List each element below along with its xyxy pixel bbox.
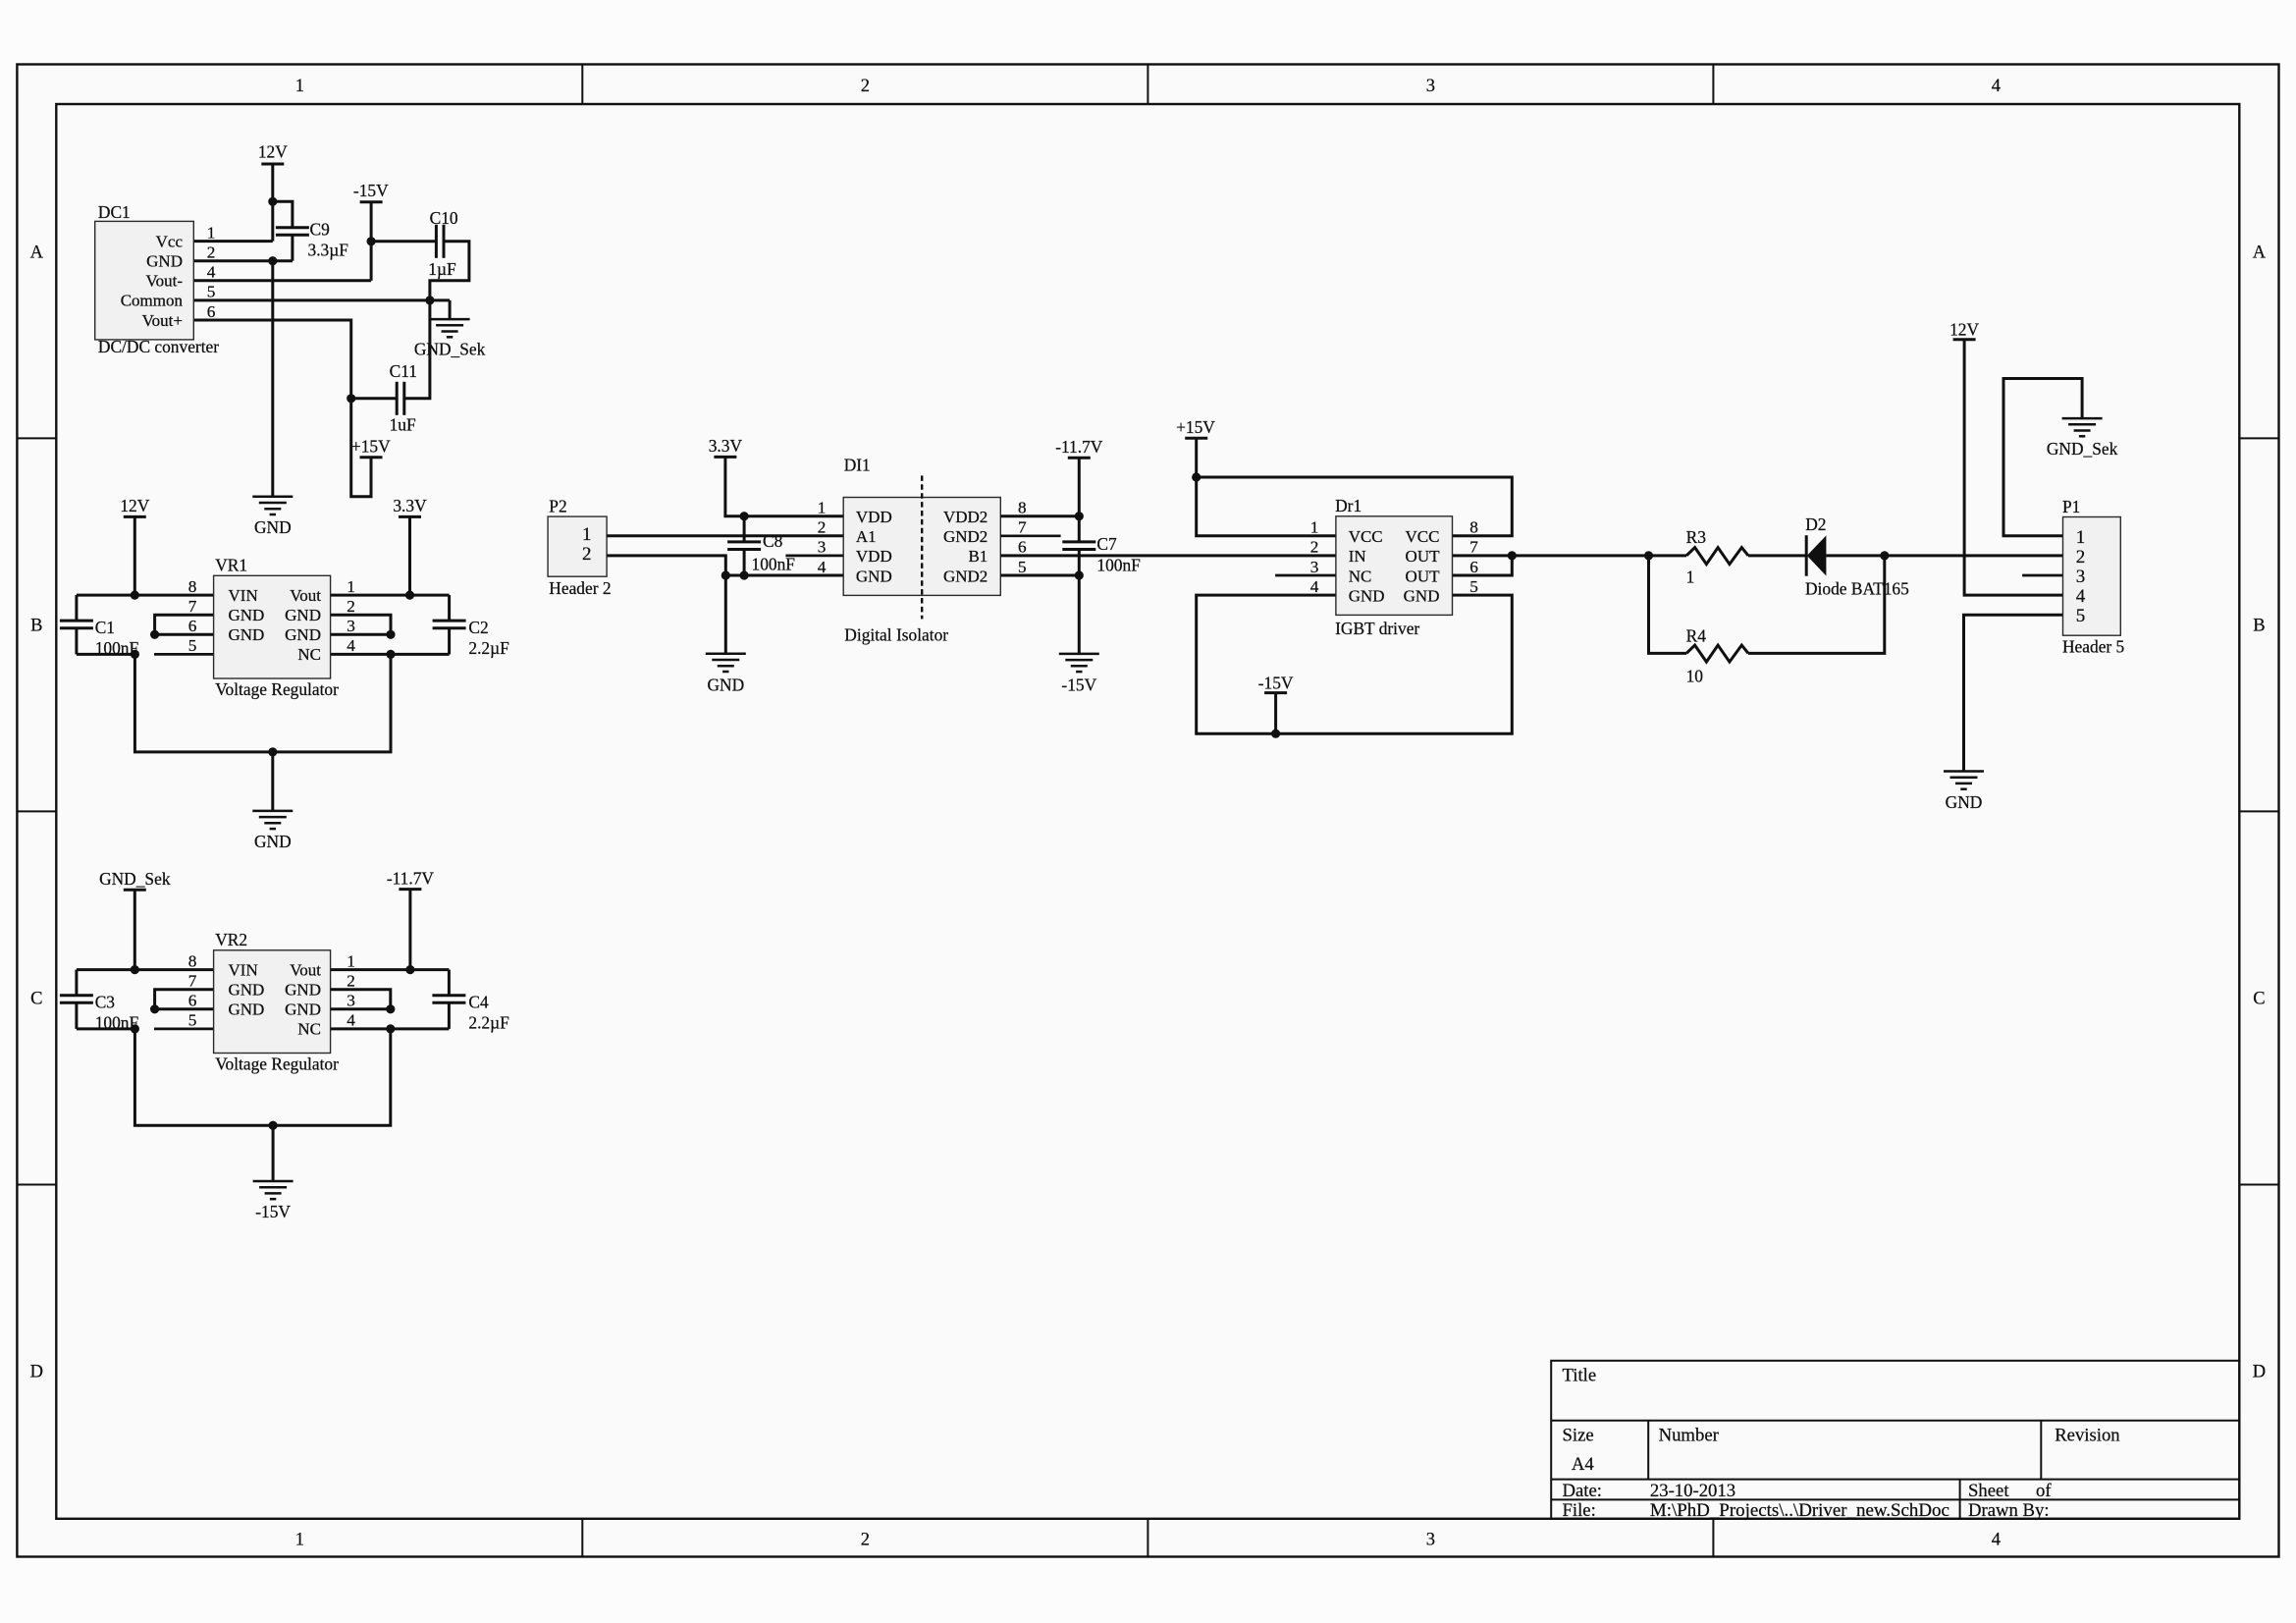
svg-text:Vout: Vout xyxy=(290,586,321,605)
component DI1 Digital Isolator xyxy=(818,456,1027,645)
svg-text:12V: 12V xyxy=(258,142,288,162)
svg-text:GND: GND xyxy=(285,981,321,1000)
wire C11 left lead xyxy=(351,397,398,400)
svg-text:4: 4 xyxy=(818,558,827,576)
power -11.7V (VR2 output) xyxy=(387,868,435,969)
wire DI1 pin3 stub xyxy=(785,555,843,558)
junction dot +15V node xyxy=(1192,472,1201,481)
svg-text:Drawn By:: Drawn By: xyxy=(1968,1500,2050,1521)
wire P1 pin3 stub xyxy=(2022,574,2062,577)
svg-text:B: B xyxy=(30,617,42,636)
svg-text:M:\PhD_Projects\..\Driver_new.: M:\PhD_Projects\..\Driver_new.SchDoc xyxy=(1650,1500,1949,1521)
svg-text:12V: 12V xyxy=(1949,320,1979,340)
wire VR1 pin2-pin3 jog xyxy=(331,615,391,634)
svg-text:1: 1 xyxy=(1310,518,1319,537)
wire +15V to Dr1 pin1 VCC xyxy=(1197,477,1336,536)
capacitor C9 3.3uF xyxy=(273,201,348,260)
svg-text:IGBT driver: IGBT driver xyxy=(1335,619,1419,638)
wire VR1 pin8 VIN rail xyxy=(77,594,214,597)
svg-text:D: D xyxy=(2253,1363,2266,1382)
svg-text:3: 3 xyxy=(1310,558,1319,576)
junction dot -15V/C10 xyxy=(367,237,376,245)
svg-text:1: 1 xyxy=(295,1531,304,1550)
svg-text:Voltage Regulator: Voltage Regulator xyxy=(215,1054,339,1073)
wire DC1 pin2 GND net xyxy=(193,259,293,262)
svg-text:A4: A4 xyxy=(1572,1454,1594,1475)
junction dot D2/R4 node xyxy=(1880,551,1889,560)
svg-text:Vcc: Vcc xyxy=(156,232,184,250)
capacitor C4 2.2uF xyxy=(432,970,509,1033)
power GND_Sek (VR2 input) xyxy=(99,869,171,970)
svg-text:-15V: -15V xyxy=(353,181,389,200)
wire DC1 pin6 Vout+ to +15V xyxy=(193,320,371,497)
svg-text:GND: GND xyxy=(285,1001,321,1019)
power +15V xyxy=(351,437,391,458)
resistor R3 1 xyxy=(1686,527,1748,587)
ground GND (below P1) xyxy=(1944,772,1984,813)
svg-text:4: 4 xyxy=(2076,586,2086,607)
svg-text:1: 1 xyxy=(295,77,304,96)
wire VR1 pin1 Vout xyxy=(331,594,450,597)
component VR2 Voltage Regulator xyxy=(188,930,356,1073)
svg-text:C7: C7 xyxy=(1096,534,1117,554)
wire VR2 ground U xyxy=(134,1029,390,1125)
wire DC1 pin1 Vcc to 12V xyxy=(193,240,272,243)
wire P2 pin1 to DI1 pin2 xyxy=(607,534,843,537)
svg-text:4: 4 xyxy=(347,636,355,655)
wire DI1 pin6 B1 to Dr1 IN xyxy=(1000,554,1336,557)
svg-text:3.3V: 3.3V xyxy=(709,436,743,456)
svg-text:3: 3 xyxy=(347,617,355,635)
capacitor C7 100nF xyxy=(1062,516,1141,575)
wire D2 to P1 pin2 xyxy=(1826,554,2062,557)
svg-text:5: 5 xyxy=(1018,558,1027,576)
svg-text:P1: P1 xyxy=(2062,497,2080,516)
svg-text:7: 7 xyxy=(188,597,197,616)
svg-text:2: 2 xyxy=(2076,547,2086,568)
svg-text:2: 2 xyxy=(818,518,827,537)
wire VR2 pin1 Vout xyxy=(331,968,450,971)
junction dot GND2 rail xyxy=(1075,570,1084,579)
svg-text:Header 2: Header 2 xyxy=(549,578,611,598)
component P1 Header 5 xyxy=(2062,497,2125,657)
svg-text:B: B xyxy=(2253,617,2265,636)
junction dot GND U center xyxy=(268,747,277,756)
wire VR1 ground U xyxy=(134,654,391,752)
svg-text:A: A xyxy=(2253,243,2267,263)
junction dot C1/GND-U xyxy=(131,650,139,659)
svg-text:GND: GND xyxy=(229,1001,265,1019)
power 3.3V (VR1 output) xyxy=(393,496,427,595)
svg-text:5: 5 xyxy=(1469,577,1478,596)
junction dot 3.3V/Vout xyxy=(405,591,414,600)
svg-text:3: 3 xyxy=(818,538,827,557)
svg-text:3: 3 xyxy=(1426,77,1435,96)
component DC1 DC/DC converter xyxy=(95,202,220,356)
svg-text:Header 5: Header 5 xyxy=(2062,637,2125,657)
svg-text:GND: GND xyxy=(707,675,744,694)
junction dot C8 bottom xyxy=(740,570,749,579)
svg-text:7: 7 xyxy=(188,972,197,991)
svg-text:Diode BAT165: Diode BAT165 xyxy=(1805,579,1909,599)
svg-text:D2: D2 xyxy=(1805,514,1826,534)
junction dot GND stem xyxy=(721,570,730,579)
svg-text:GND: GND xyxy=(1404,586,1440,605)
svg-text:VIN: VIN xyxy=(229,960,258,979)
power +12V rail (top) xyxy=(258,142,288,242)
svg-text:B1: B1 xyxy=(968,547,988,566)
svg-text:2.2µF: 2.2µF xyxy=(468,1012,509,1032)
svg-text:VDD: VDD xyxy=(856,508,892,526)
wire -15V stem VR2 xyxy=(272,1125,275,1181)
wire Dr1 pin6 OUT jog xyxy=(1453,556,1513,575)
svg-text:C3: C3 xyxy=(95,992,116,1011)
svg-text:Vout-: Vout- xyxy=(146,272,184,291)
wire VR1 pin7-pin6 jog xyxy=(155,615,214,634)
junction dot GND drop xyxy=(268,256,277,265)
wire P2 pin2 to GND xyxy=(607,556,725,575)
wire C10 left lead xyxy=(371,240,436,243)
svg-text:VR1: VR1 xyxy=(215,556,247,575)
svg-text:100nF: 100nF xyxy=(752,554,796,573)
resistor R4 10 xyxy=(1686,626,1748,686)
junction dot pin6 tip xyxy=(150,630,159,639)
svg-text:DC1: DC1 xyxy=(98,202,131,222)
junction dot 12V/C9 xyxy=(268,197,277,206)
svg-text:10: 10 xyxy=(1686,667,1704,686)
svg-text:GND_Sek: GND_Sek xyxy=(414,340,486,359)
svg-text:Date:: Date: xyxy=(1563,1481,1602,1501)
svg-text:GND: GND xyxy=(285,625,321,644)
junction dot OUT pins join xyxy=(1508,551,1517,560)
svg-text:1: 1 xyxy=(2076,527,2086,548)
junction dot 3.3V/C8 xyxy=(740,512,749,520)
svg-text:P2: P2 xyxy=(549,497,566,516)
svg-text:Dr1: Dr1 xyxy=(1335,496,1362,515)
svg-text:8: 8 xyxy=(1469,518,1478,537)
svg-text:NC: NC xyxy=(297,1020,321,1039)
svg-text:VDD2: VDD2 xyxy=(943,508,988,526)
svg-text:C8: C8 xyxy=(763,531,783,551)
junction dot VR2 pin3 tip xyxy=(386,1004,395,1013)
ground GND_Sek (near DC1) xyxy=(414,319,486,358)
svg-text:GND: GND xyxy=(1349,586,1385,605)
svg-text:6: 6 xyxy=(188,992,197,1010)
svg-text:1uF: 1uF xyxy=(390,415,416,435)
wire GND drop from DC1 pin2 xyxy=(271,261,274,497)
svg-text:IN: IN xyxy=(1349,547,1366,566)
svg-text:GND: GND xyxy=(254,517,292,537)
svg-text:Title: Title xyxy=(1563,1366,1597,1386)
junction dot pin3 tip xyxy=(386,630,395,639)
svg-text:Digital Isolator: Digital Isolator xyxy=(844,624,948,644)
svg-text:8: 8 xyxy=(188,577,197,596)
svg-text:C4: C4 xyxy=(468,992,489,1011)
svg-text:1: 1 xyxy=(347,951,355,970)
svg-text:NC: NC xyxy=(297,645,321,664)
svg-text:2.2µF: 2.2µF xyxy=(468,638,509,658)
capacitor C8 100nF xyxy=(727,516,795,575)
wire R3 to D2 xyxy=(1748,554,1806,557)
ground -15V (below C7) xyxy=(1059,654,1099,695)
wire +15V top loop to Dr1 pin8 xyxy=(1197,477,1513,536)
title block xyxy=(1551,1361,2239,1519)
svg-text:3: 3 xyxy=(347,992,355,1010)
svg-text:2: 2 xyxy=(347,972,355,991)
junction dot GND_Sek/VIN xyxy=(131,965,139,974)
power 3.3V (DI1) xyxy=(709,436,843,516)
wire Dr1 pin7 OUT xyxy=(1453,554,1687,557)
svg-text:File:: File: xyxy=(1563,1500,1596,1521)
svg-text:of: of xyxy=(2036,1481,2052,1501)
capacitor C11 1uF xyxy=(390,361,417,435)
junction dot R3/R4 left node xyxy=(1644,551,1653,560)
svg-text:D: D xyxy=(30,1363,43,1382)
junction dot VR2 pin6 tip xyxy=(150,1004,159,1013)
capacitor C10 1uF xyxy=(428,208,458,279)
junction dot pin4 node xyxy=(386,650,395,659)
svg-text:VCC: VCC xyxy=(1406,527,1440,546)
svg-text:GND: GND xyxy=(229,981,265,1000)
svg-text:-11.7V: -11.7V xyxy=(1055,437,1103,457)
power -15V (Dr1) xyxy=(1258,674,1294,734)
svg-text:NC: NC xyxy=(1349,567,1372,585)
svg-text:2: 2 xyxy=(347,597,355,616)
capacitor C3 100nF xyxy=(60,970,139,1033)
wire Dr1 pin3 NC stub xyxy=(1275,574,1336,577)
svg-text:VDD: VDD xyxy=(856,547,892,566)
svg-text:GND: GND xyxy=(229,625,265,644)
svg-text:Revision: Revision xyxy=(2055,1426,2120,1446)
svg-text:1: 1 xyxy=(818,499,827,517)
wire R4 branch right xyxy=(1748,556,1885,654)
svg-text:100nF: 100nF xyxy=(1096,556,1141,575)
svg-text:Number: Number xyxy=(1659,1426,1720,1446)
svg-text:6: 6 xyxy=(1018,538,1027,557)
svg-text:-11.7V: -11.7V xyxy=(387,868,435,888)
diode D2 BAT165 xyxy=(1805,514,1909,599)
power -11.7V (DI1) xyxy=(1055,437,1103,516)
svg-text:4: 4 xyxy=(1310,577,1319,596)
junction dot C3 node xyxy=(131,1024,139,1033)
svg-text:7: 7 xyxy=(1469,538,1478,557)
svg-text:-15V: -15V xyxy=(1258,674,1294,693)
svg-text:GND: GND xyxy=(254,832,292,851)
wire GND stem VR1 xyxy=(271,752,274,811)
svg-text:2: 2 xyxy=(1310,538,1319,557)
component P2 Header 2 xyxy=(548,497,611,598)
svg-text:C: C xyxy=(30,990,42,1009)
svg-text:GND2: GND2 xyxy=(943,527,988,546)
svg-text:GND: GND xyxy=(856,567,892,585)
svg-text:7: 7 xyxy=(1018,518,1027,537)
wire C1 bottom to GND U xyxy=(77,653,134,656)
ground -15V (below VR2) xyxy=(253,1181,294,1221)
svg-text:-15V: -15V xyxy=(1061,675,1096,694)
svg-text:3.3µF: 3.3µF xyxy=(308,241,349,260)
wire VR2 pin5 stub xyxy=(154,1028,214,1031)
svg-text:OUT: OUT xyxy=(1406,547,1441,566)
svg-text:A1: A1 xyxy=(856,527,877,546)
svg-text:C1: C1 xyxy=(95,618,115,637)
svg-text:R4: R4 xyxy=(1686,626,1707,646)
svg-text:6: 6 xyxy=(188,617,197,635)
svg-text:8: 8 xyxy=(188,951,197,970)
svg-text:2: 2 xyxy=(861,1531,870,1550)
wire DI1 pin8 VDD2 xyxy=(1000,514,1079,517)
component Dr1 IGBT driver xyxy=(1310,496,1479,638)
junction dot -11.7V/Vout xyxy=(405,965,414,974)
svg-text:5: 5 xyxy=(188,636,197,655)
svg-text:3.3V: 3.3V xyxy=(393,496,427,515)
svg-text:VCC: VCC xyxy=(1349,527,1383,546)
junction dot VR2 U center xyxy=(269,1121,278,1130)
svg-text:GND2: GND2 xyxy=(943,567,988,585)
wire VR2 pin2-pin3 jog xyxy=(331,990,391,1009)
svg-text:1µF: 1µF xyxy=(428,259,456,279)
svg-text:R3: R3 xyxy=(1686,527,1707,547)
svg-text:GND: GND xyxy=(285,606,321,624)
svg-text:5: 5 xyxy=(207,283,216,301)
svg-text:23-10-2013: 23-10-2013 xyxy=(1650,1481,1735,1501)
wire R4 branch left xyxy=(1649,556,1687,654)
svg-text:VR2: VR2 xyxy=(215,930,247,949)
ground GND (below DC1) xyxy=(252,497,293,537)
svg-text:GND: GND xyxy=(1946,792,1983,812)
wire GND_Sek loop to P1 pin1 xyxy=(2003,379,2082,536)
power 12V (P1) xyxy=(1949,320,2062,596)
svg-text:1: 1 xyxy=(582,524,592,545)
wire P1 pin5 to GND xyxy=(1964,615,2063,771)
svg-text:5: 5 xyxy=(188,1011,197,1030)
svg-text:DI1: DI1 xyxy=(844,456,871,475)
svg-text:2: 2 xyxy=(861,77,870,96)
svg-text:4: 4 xyxy=(347,1011,355,1030)
svg-text:+15V: +15V xyxy=(351,437,391,457)
junction dot C11 tap xyxy=(347,394,355,403)
junction dot Common node xyxy=(425,296,434,304)
svg-text:3: 3 xyxy=(1426,1531,1435,1550)
ground GND (below C8) xyxy=(706,654,746,695)
wire -15V stem (DI1) xyxy=(1078,575,1081,654)
svg-text:C9: C9 xyxy=(310,220,330,240)
wire GND net to DI1 pin4 xyxy=(725,574,843,577)
wire VR1 pin5 stub xyxy=(154,653,214,656)
wire VR1 pin4 to C2 xyxy=(331,653,450,656)
ground GND (below VR1) xyxy=(252,811,293,851)
wire C11 right lead to Common node xyxy=(404,300,430,399)
svg-text:C: C xyxy=(2253,990,2265,1009)
capacitor C2 2.2uF xyxy=(433,595,510,658)
svg-text:GND_Sek: GND_Sek xyxy=(99,869,171,889)
svg-text:3: 3 xyxy=(2076,567,2086,587)
power 12V (VR1 input) xyxy=(120,496,149,595)
svg-text:-15V: -15V xyxy=(255,1202,291,1221)
svg-text:6: 6 xyxy=(207,302,216,321)
wire DI1 pin5 GND2 xyxy=(1000,574,1079,577)
svg-text:VIN: VIN xyxy=(229,586,258,605)
svg-text:Size: Size xyxy=(1563,1426,1594,1446)
svg-text:4: 4 xyxy=(207,263,216,282)
wire GND_Sek tap xyxy=(449,300,452,319)
wire VR2 pin7-pin6 jog xyxy=(155,990,214,1009)
svg-text:GND: GND xyxy=(229,606,265,624)
svg-text:12V: 12V xyxy=(120,496,149,515)
wire DI1 pin7 stub xyxy=(1000,534,1060,537)
wire DC1 pin5 Common xyxy=(193,298,450,301)
component VR1 Voltage Regulator xyxy=(188,556,356,699)
junction dot 12V/VIN xyxy=(131,591,139,600)
svg-text:GND_Sek: GND_Sek xyxy=(2047,439,2118,459)
power -15V (to DC1 Vout-) xyxy=(353,181,389,281)
wire VR2 pin8 VIN rail xyxy=(77,968,214,971)
wire GND stem (DI1) xyxy=(724,575,727,654)
svg-text:1: 1 xyxy=(1686,568,1695,587)
svg-text:A: A xyxy=(30,243,44,263)
wire C3 bottom to GND U xyxy=(77,1027,134,1030)
svg-text:1: 1 xyxy=(207,223,216,242)
svg-text:2: 2 xyxy=(582,544,592,565)
wire VR2 pin4 to C4 xyxy=(331,1027,450,1030)
svg-text:4: 4 xyxy=(1992,1531,2001,1550)
capacitor C1 100nF xyxy=(60,595,139,658)
svg-text:GND: GND xyxy=(146,252,183,271)
svg-text:Sheet: Sheet xyxy=(1968,1481,2009,1501)
svg-text:6: 6 xyxy=(1469,558,1478,576)
svg-text:OUT: OUT xyxy=(1406,567,1441,585)
svg-text:C2: C2 xyxy=(468,618,488,637)
svg-text:Common: Common xyxy=(121,292,184,310)
ground GND_Sek (P1) xyxy=(2047,418,2118,459)
svg-text:5: 5 xyxy=(2076,606,2086,626)
svg-text:4: 4 xyxy=(1992,77,2001,96)
wire Dr1 pin4 GND to -15V rail xyxy=(1197,595,1513,733)
svg-text:1: 1 xyxy=(347,577,355,596)
wire DC1 pin4 Vout- to -15V xyxy=(193,279,371,282)
svg-text:DC/DC converter: DC/DC converter xyxy=(98,337,219,356)
svg-text:2: 2 xyxy=(207,243,216,262)
svg-text:Vout+: Vout+ xyxy=(142,311,183,330)
svg-text:Vout: Vout xyxy=(290,960,321,979)
svg-text:Voltage Regulator: Voltage Regulator xyxy=(215,679,339,699)
svg-text:8: 8 xyxy=(1018,499,1027,517)
wire C10 right loop to Common xyxy=(430,242,469,300)
svg-text:C10: C10 xyxy=(430,208,458,228)
isolation dashed line DI1 xyxy=(921,475,923,619)
power +15V (Dr1) xyxy=(1176,417,1215,477)
junction dot VR2 pin4 node xyxy=(386,1024,395,1033)
junction dot VDD2 rail xyxy=(1075,512,1084,520)
svg-text:C11: C11 xyxy=(390,361,417,381)
svg-text:+15V: +15V xyxy=(1176,417,1215,437)
junction dot -15V/GND wire xyxy=(1271,730,1280,738)
